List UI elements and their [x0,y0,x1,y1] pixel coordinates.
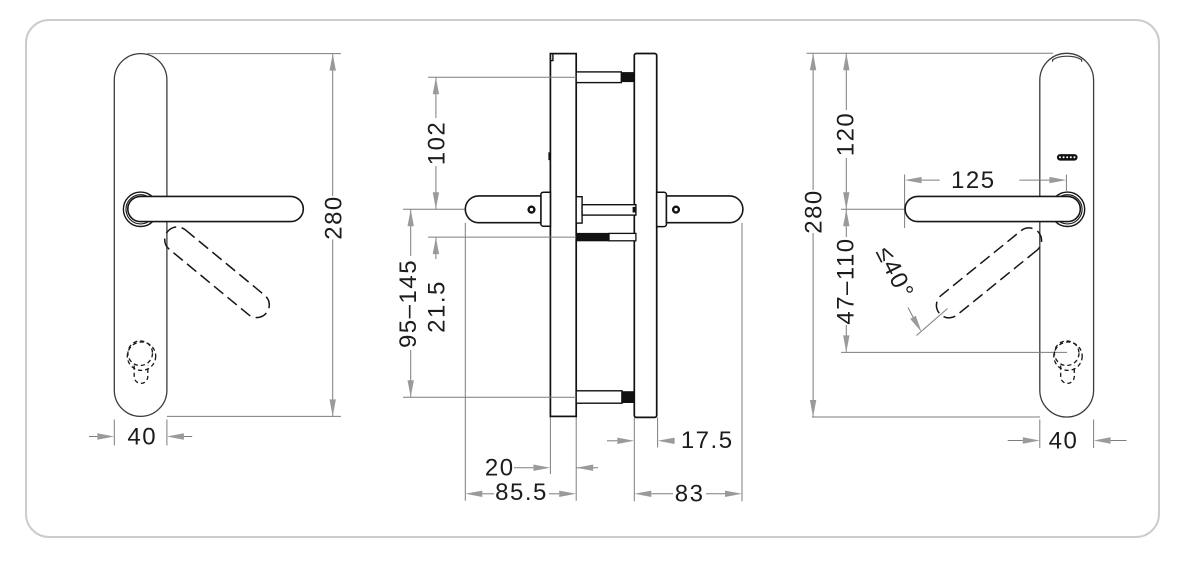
dimension 102 line [435,77,437,118]
extension line 40 left right view [1039,420,1041,449]
svg-text:102: 102 [424,121,451,166]
arrow 95-145 top [408,209,414,226]
extension line top (plate top to 280 dim) [147,53,341,55]
svg-text:40: 40 [1049,428,1079,455]
logo bump on inner plate edge [548,152,550,160]
extension line outer plate left edge down [633,417,635,501]
extension line bottom right view [812,416,1040,418]
extension line handle centre right view [841,208,905,210]
svg-text:280: 280 [320,195,347,240]
extension line inner plate left edge down [549,416,551,474]
middle screw shank [609,233,636,240]
euro cylinder dashed circle small right view [1054,341,1079,366]
extension line 125 right [1065,175,1067,192]
inner backplate profile [550,54,576,417]
spindle [582,205,636,215]
right handle grip middle view [666,196,742,223]
euro cylinder dashed circle small left view [128,341,153,366]
extension line middle screw [428,236,576,238]
svg-text:85.5: 85.5 [495,479,548,506]
dimension 40 right view [1008,440,1023,442]
arrow 95-145 bottom [408,380,414,397]
lever bar left view [128,196,303,221]
spindle hub [576,197,582,223]
svg-text:120: 120 [833,112,860,157]
bottom fixing bolt [576,391,622,403]
right handle collar [657,192,667,226]
arrow 102 top [433,77,439,94]
svg-text:280: 280 [801,189,828,234]
dashed lever (open position) right view [931,223,1046,323]
extension line top right view [807,52,1054,54]
top fixing bolt [576,72,621,83]
lever bar right view [905,196,1080,221]
dimension 280 line left view [332,54,334,196]
arrow 280 bottom [330,399,336,416]
middle screw black threaded part [576,233,609,241]
left handle collar [541,192,551,226]
svg-text:20: 20 [485,455,515,482]
extension line right handle end down [741,223,743,502]
screw dot right handle [673,207,679,213]
extension line bottom (plate bottom to 280 dim) [167,415,341,417]
dashed lever (open position) left view [160,222,275,323]
svg-text:83: 83 [675,481,705,508]
extension line outer plate right edge down [657,417,659,447]
dimension 40 line left view [89,436,97,438]
dimension 120 line [845,53,847,110]
svg-text:17.5: 17.5 [681,427,734,454]
backplate left view [114,54,167,417]
logo pill right view [1057,154,1078,161]
euro cylinder dashed tongue left view [134,366,148,384]
left handle grip middle view [465,196,541,223]
extension line inner plate right edge down [575,416,577,500]
extension line handle centre middle view [403,208,465,210]
dimension 280 line right view [812,53,814,190]
outer backplate profile [634,54,656,418]
rose outer circle left view [123,192,157,226]
svg-text:47–110: 47–110 [833,237,860,324]
dimension 83 [634,491,651,497]
dimension 125 [905,177,922,183]
arrow 102 bottom [433,192,439,209]
extension line 40 left [113,420,115,446]
svg-text:21.5: 21.5 [424,280,451,333]
arrow 40 left [97,433,114,439]
dimension 85.5 [465,491,482,497]
dimension 20 [514,467,533,469]
tangent tick on dashed lever [917,309,948,336]
extension line 40 right right view [1093,420,1095,449]
top cap seam right view [1053,56,1082,62]
svg-text:40: 40 [127,424,157,451]
arrow 280 top [330,54,336,71]
leader line for 40 degrees [908,308,914,319]
dimension 95-145 line [410,209,412,256]
dimension 47-110 line [845,209,847,237]
svg-text:95–145: 95–145 [395,259,422,348]
arrow 40 right [167,433,184,439]
extension line top fixing bolt [428,76,576,78]
rose inner circle right view [1053,195,1082,224]
extension line 40 right [166,420,168,446]
backplate right view [1040,53,1094,417]
extension line bottom bolt [403,396,576,398]
cap seam notch top of inner plate [550,54,553,60]
extension line 125 left [904,175,906,229]
euro cylinder dashed tongue right view [1061,366,1075,384]
screw dot left handle [529,207,535,213]
extension line cylinder centre right view [841,351,1067,353]
dimension 17.5 [607,440,617,442]
extension line left handle end down [464,223,466,501]
leader arrow for 40 degrees [910,316,921,332]
rose inner circle left view [126,195,155,224]
svg-text:125: 125 [951,167,996,194]
euro cylinder dashed circle big right view [1054,342,1082,370]
dimension 21.5 arrow and tail [435,237,437,259]
rose outer circle right view [1050,192,1084,226]
euro cylinder dashed circle big left view [127,342,155,370]
